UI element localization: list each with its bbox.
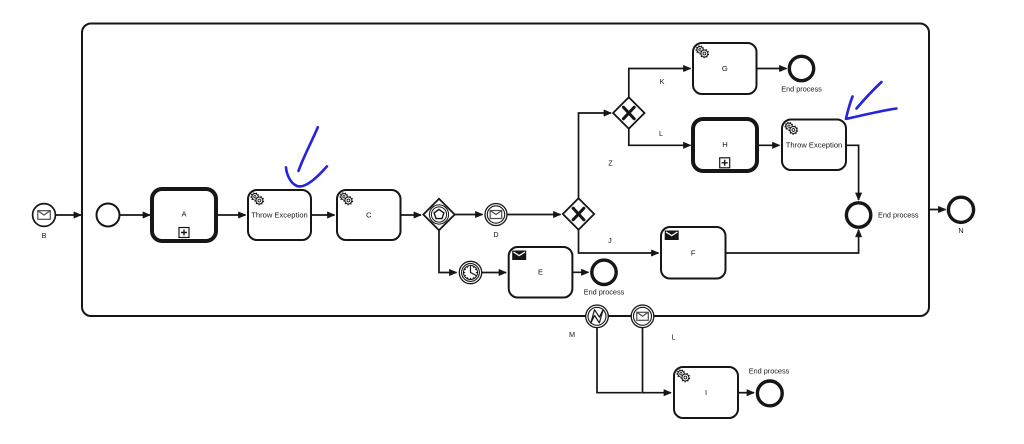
svg-text:B: B [42, 231, 47, 240]
svg-text:C: C [366, 211, 372, 220]
svg-text:Z: Z [608, 159, 613, 168]
svg-text:G: G [722, 64, 728, 73]
svg-text:End process: End process [781, 85, 822, 94]
svg-text:K: K [660, 77, 665, 86]
svg-text:E: E [538, 268, 543, 277]
svg-text:F: F [691, 248, 696, 257]
svg-text:D: D [493, 230, 498, 239]
svg-text:Throw Exception: Throw Exception [786, 141, 843, 150]
svg-text:H: H [722, 140, 727, 149]
svg-text:End process: End process [584, 288, 625, 297]
svg-text:N: N [958, 226, 963, 235]
svg-text:I: I [705, 388, 707, 397]
svg-text:M: M [569, 330, 575, 339]
svg-text:End process: End process [749, 367, 790, 376]
svg-text:Throw Exception: Throw Exception [251, 211, 308, 220]
svg-text:End process: End process [878, 211, 919, 220]
svg-text:L: L [659, 129, 663, 138]
svg-text:L: L [671, 333, 675, 342]
svg-text:J: J [608, 236, 612, 245]
